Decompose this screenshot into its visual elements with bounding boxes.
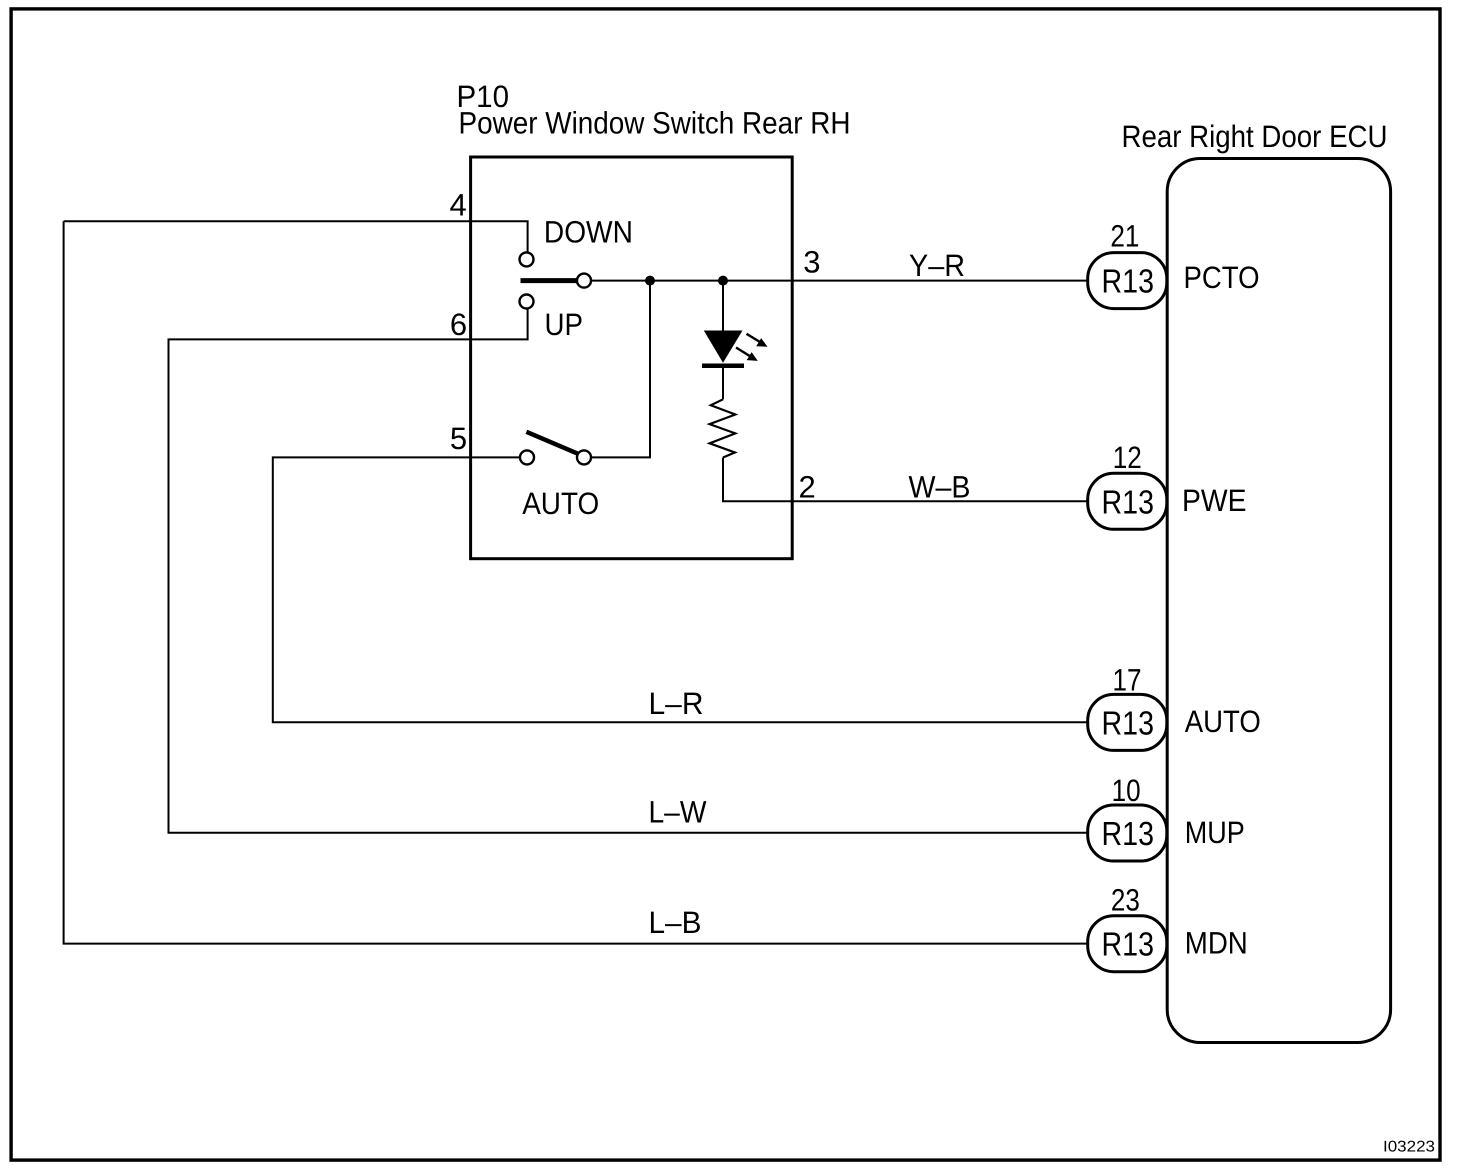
wire LED to resistor (722, 368, 724, 400)
resistor zigzag (710, 399, 736, 457)
LED cathode bar (702, 363, 744, 368)
connector R13 pin 21 oval (1088, 253, 1167, 309)
svg-text:3: 3 (803, 244, 820, 279)
ECU Rear Right Door outline (1167, 159, 1390, 1043)
svg-text:R13: R13 (1102, 927, 1155, 964)
svg-text:21: 21 (1110, 218, 1139, 253)
connector R13 pin 12 oval (1088, 473, 1167, 529)
wire AUTO contact to node (591, 281, 650, 458)
switch AUTO left contact (520, 450, 534, 464)
LED arrow 1 (747, 334, 768, 347)
svg-text:AUTO: AUTO (522, 486, 599, 521)
connector R13 pin 17 oval (1088, 694, 1167, 750)
switch pole bar (521, 278, 577, 283)
switch contact UP (520, 295, 534, 309)
connector R13 pin 23 oval (1088, 916, 1167, 972)
switch AUTO right contact (577, 450, 591, 464)
wire L-W pin6 UP to MUP (169, 309, 1088, 833)
wire pole to pin3 Y-R to PCTO (591, 280, 1088, 282)
svg-text:4: 4 (450, 187, 467, 222)
switch contact DOWN (520, 252, 534, 266)
svg-text:PCTO: PCTO (1184, 260, 1260, 295)
svg-text:MUP: MUP (1185, 815, 1245, 850)
node junction 2 (718, 276, 728, 286)
LED arrow 2 (736, 348, 758, 361)
svg-text:DOWN: DOWN (544, 215, 633, 250)
node junction 1 (645, 276, 655, 286)
svg-text:L–R: L–R (649, 686, 704, 721)
svg-text:10: 10 (1112, 773, 1141, 808)
wire L-R pin5 AUTO to AUTO (273, 457, 1088, 722)
svg-text:MDN: MDN (1185, 925, 1248, 960)
switch P10 box outline (471, 157, 793, 559)
svg-text:5: 5 (450, 421, 467, 456)
wire W-B resistor to PWE (723, 458, 1088, 502)
connector R13 pin 10 oval (1088, 805, 1167, 861)
svg-text:12: 12 (1113, 440, 1142, 475)
svg-text:R13: R13 (1102, 816, 1155, 853)
wire pin4 feed (64, 221, 528, 252)
svg-text:L–W: L–W (649, 795, 708, 830)
switch AUTO arm (526, 432, 577, 454)
svg-text:23: 23 (1111, 882, 1140, 917)
svg-text:I03223: I03223 (1383, 1139, 1435, 1156)
svg-text:R13: R13 (1102, 264, 1155, 301)
wire L-B pin4 to MDN (64, 221, 1088, 943)
svg-text:R13: R13 (1102, 705, 1155, 742)
svg-text:6: 6 (450, 307, 467, 342)
svg-text:17: 17 (1113, 663, 1142, 698)
svg-text:PWE: PWE (1182, 483, 1247, 518)
svg-text:Rear Right Door ECU: Rear Right Door ECU (1122, 119, 1388, 154)
LED D1 triangle (704, 331, 743, 363)
svg-text:UP: UP (545, 307, 584, 342)
svg-text:Y–R: Y–R (909, 248, 965, 283)
svg-text:L–B: L–B (649, 905, 702, 940)
svg-text:2: 2 (799, 470, 816, 505)
wire node to LED (722, 281, 724, 331)
svg-text:AUTO: AUTO (1185, 704, 1261, 739)
svg-text:Power Window Switch Rear RH: Power Window Switch Rear RH (459, 106, 851, 141)
svg-text:R13: R13 (1102, 484, 1155, 521)
svg-text:W–B: W–B (909, 470, 971, 505)
switch pole contact (577, 274, 591, 288)
